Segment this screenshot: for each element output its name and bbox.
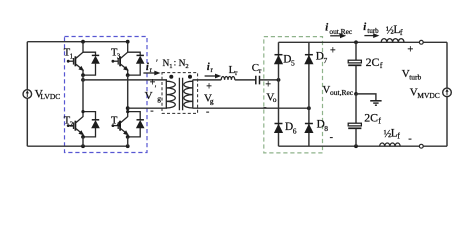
- wire: bridge output B to primary bottom: [128, 107, 167, 109]
- svg-text:LVDC: LVDC: [40, 92, 60, 101]
- wire: rectifier legs: [279, 42, 309, 146]
- diode D5: [274, 53, 295, 67]
- wire: leg A mid vertical: [82, 75, 84, 112]
- diode D8: [304, 119, 328, 133]
- svg-text:′: ′: [156, 58, 158, 68]
- svg-text:1: 1: [169, 63, 172, 70]
- source V_MVDC: [443, 88, 452, 97]
- terminal top: [419, 40, 423, 44]
- terminal bottom: [419, 144, 423, 148]
- diode D6: [274, 121, 297, 135]
- wire: leg B mid vertical: [127, 75, 129, 112]
- source V_LVDC: [23, 90, 32, 99]
- node: T2 diode return: [81, 135, 85, 139]
- node: rectifier input: [277, 78, 281, 82]
- svg-text:f: f: [397, 131, 400, 140]
- current arrow i_r: [205, 75, 218, 77]
- svg-text:5: 5: [291, 59, 295, 68]
- node: T2 collector branch: [81, 110, 84, 113]
- svg-text::: :: [174, 59, 177, 69]
- node: T4 bottom junction: [126, 144, 130, 148]
- transistor T1 (IGBT): [64, 42, 84, 75]
- node: T2 bottom junction: [81, 144, 85, 148]
- current arrow i_r': [143, 72, 157, 74]
- svg-text:o: o: [273, 95, 277, 104]
- svg-text:i: i: [325, 22, 328, 33]
- svg-text:′: ′: [155, 84, 157, 93]
- capacitor 2Cf bottom: [348, 94, 381, 146]
- polarity dot primary: [169, 75, 173, 79]
- svg-text:V: V: [145, 90, 153, 102]
- svg-text:i: i: [146, 62, 149, 73]
- node: leg B midpoint output: [126, 106, 130, 110]
- wire: secondary top to Lr: [193, 79, 222, 81]
- svg-text:8: 8: [324, 124, 328, 133]
- wire: Lr to Cr: [235, 79, 256, 81]
- node: T1 emitter / diode return: [81, 73, 85, 77]
- wire: output top rail: [279, 41, 448, 43]
- node: leg A midpoint output: [81, 78, 85, 82]
- diode of T4: [128, 112, 145, 137]
- wire: left vertical input: [26, 42, 28, 147]
- svg-text:-: -: [408, 134, 412, 145]
- node: T4 diode return: [126, 135, 130, 139]
- svg-text:+: +: [206, 81, 212, 92]
- svg-text:g: g: [157, 94, 161, 103]
- inverter dashed box (blue): [65, 37, 148, 153]
- svg-text:2: 2: [70, 120, 74, 128]
- node: T4 collector branch: [126, 110, 129, 113]
- wire: inverter top rail: [27, 41, 127, 43]
- capacitor Cr: [256, 76, 260, 85]
- node: T3 emitter / diode return: [126, 73, 130, 77]
- svg-text:out,Rec: out,Rec: [330, 88, 354, 97]
- transistor T3 (IGBT): [111, 42, 129, 75]
- ground: [356, 94, 382, 105]
- svg-text:4: 4: [117, 120, 121, 128]
- wire: bridge output A to primary top: [83, 79, 167, 81]
- transistor T4 (IGBT): [111, 112, 129, 137]
- node: T1 top junction: [81, 40, 85, 44]
- svg-text:-: -: [330, 132, 333, 143]
- inductor Lr: [221, 76, 235, 79]
- inductor 1/2Lf top: [381, 39, 404, 43]
- wire: secondary bottom return to rectifier leg B: [193, 107, 309, 109]
- svg-text:6: 6: [293, 126, 297, 135]
- node: filter cap top: [354, 40, 358, 44]
- wire: [127, 137, 129, 146]
- svg-text:f: f: [378, 117, 381, 126]
- diode of T2: [83, 112, 100, 137]
- transistor T2 (IGBT): [64, 112, 84, 137]
- svg-text:MVDC: MVDC: [417, 91, 440, 100]
- svg-text:3: 3: [117, 52, 121, 60]
- transformer secondary winding: [184, 80, 193, 108]
- transformer primary winding: [166, 80, 175, 108]
- svg-text:7: 7: [324, 56, 328, 65]
- transformer dashed box: [162, 73, 198, 114]
- wire: inverter bottom rail: [27, 145, 127, 147]
- diode D7: [304, 51, 327, 65]
- svg-text:turb: turb: [409, 72, 421, 81]
- node: filter cap bottom: [354, 144, 358, 148]
- wire: right vertical: [446, 42, 448, 146]
- inductor 1/2Lf bottom: [380, 143, 401, 146]
- svg-text:i: i: [363, 22, 366, 33]
- wire: Cr to rectifier input: [260, 79, 279, 81]
- diode of T3: [128, 52, 145, 75]
- node: rectifier return: [307, 106, 311, 110]
- node: T3 top junction: [126, 40, 130, 44]
- svg-text:2C: 2C: [366, 55, 380, 69]
- rectifier dashed box (green): [264, 37, 323, 153]
- svg-text:f: f: [400, 28, 403, 37]
- svg-text:+: +: [265, 80, 271, 91]
- node: ground tap: [354, 92, 358, 96]
- polarity dot secondary: [188, 75, 192, 79]
- transformer core: [179, 78, 182, 110]
- svg-text:1: 1: [70, 52, 74, 60]
- capacitor 2Cf top: [348, 42, 383, 94]
- svg-text:2: 2: [185, 63, 188, 70]
- svg-text:i: i: [207, 62, 210, 73]
- svg-text:g: g: [210, 97, 214, 106]
- svg-text:f: f: [380, 61, 383, 70]
- svg-text:+: +: [330, 46, 336, 57]
- wire: output bottom rail: [279, 145, 448, 147]
- diode of T1 (antiparallel): [83, 52, 100, 75]
- wire: [82, 137, 84, 146]
- svg-text:2C: 2C: [364, 111, 378, 125]
- svg-text:+: +: [407, 45, 413, 56]
- svg-text:-: -: [150, 106, 153, 117]
